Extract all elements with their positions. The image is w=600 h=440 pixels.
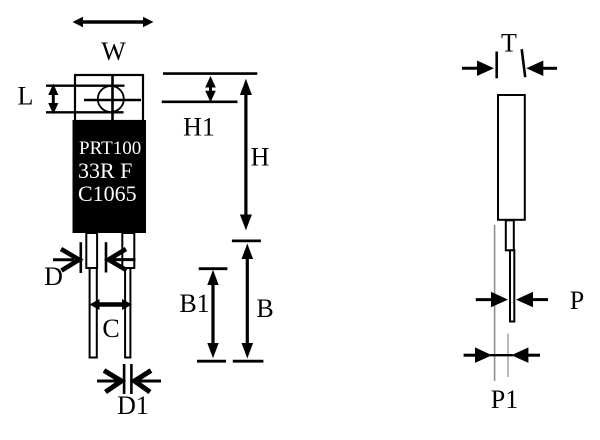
dimension D1 left tick [123, 364, 126, 394]
dimension D right tick [105, 242, 108, 272]
dimension arrow B1 [207, 270, 218, 359]
dimension arrow H [240, 79, 252, 231]
dimension P1 right arrow [511, 347, 540, 363]
svg-text:33R F: 33R F [78, 158, 132, 183]
left lead lower part [90, 268, 97, 358]
dimension T left tick [495, 52, 498, 79]
package tab outline [75, 75, 143, 121]
svg-text:P: P [570, 286, 584, 315]
right lead upper wide part [122, 233, 134, 268]
dimension arrow H1 [205, 76, 216, 102]
svg-text:P1: P1 [491, 385, 518, 414]
side view body [498, 95, 525, 220]
mounting hole [98, 86, 124, 112]
dimension P left arrow [476, 292, 508, 308]
dimension D1 left arrow [97, 371, 122, 393]
extension line B bottom [233, 360, 264, 363]
dimension P1 connecting line [490, 354, 513, 356]
extension line grey right [507, 334, 509, 377]
side view lead stub [506, 220, 514, 250]
dimension P1 left arrow [464, 347, 492, 363]
extension line H bottom / B top [232, 239, 261, 242]
dimension arrow W [73, 17, 154, 27]
svg-text:B: B [256, 294, 273, 323]
dimension D1 right tick [130, 364, 133, 394]
dimension arrow C [90, 299, 133, 310]
svg-text:B1: B1 [179, 289, 209, 318]
extension line B1 top [199, 267, 228, 270]
extension line H top [163, 72, 257, 75]
dimension D left arrow [53, 249, 79, 271]
dimension P right arrow [516, 292, 548, 308]
dimension T right tick (slanted) [522, 49, 526, 77]
extension line B1 bottom [197, 360, 226, 363]
hole centerline vertical [111, 74, 114, 120]
hole centerline horizontal [84, 99, 141, 102]
svg-text:H1: H1 [183, 113, 215, 142]
svg-text:PRT100: PRT100 [79, 138, 141, 159]
extension line H1 bottom [162, 101, 238, 104]
svg-text:D: D [44, 262, 63, 291]
svg-text:C1065: C1065 [78, 181, 137, 206]
extension line L top [46, 84, 125, 86]
extension line grey left [494, 225, 496, 381]
svg-text:W: W [101, 37, 126, 66]
dimension D right arrow [109, 249, 136, 270]
side view thin lead [510, 250, 514, 321]
resistor body [73, 120, 147, 233]
svg-text:D1: D1 [117, 391, 149, 420]
svg-text:C: C [102, 314, 119, 343]
dimension arrow B [242, 244, 254, 359]
svg-text:L: L [18, 82, 34, 111]
dimension arrow L [48, 84, 58, 114]
svg-text:T: T [501, 29, 517, 58]
left lead upper wide part [86, 233, 97, 268]
svg-text:H: H [251, 143, 270, 172]
dimension T left arrow [462, 61, 494, 77]
dimension D left tick [80, 242, 83, 273]
right lead lower part [125, 268, 130, 358]
extension line L bottom [46, 111, 124, 113]
dimension T right arrow [526, 61, 557, 77]
dimension D1 right arrow [135, 371, 162, 393]
